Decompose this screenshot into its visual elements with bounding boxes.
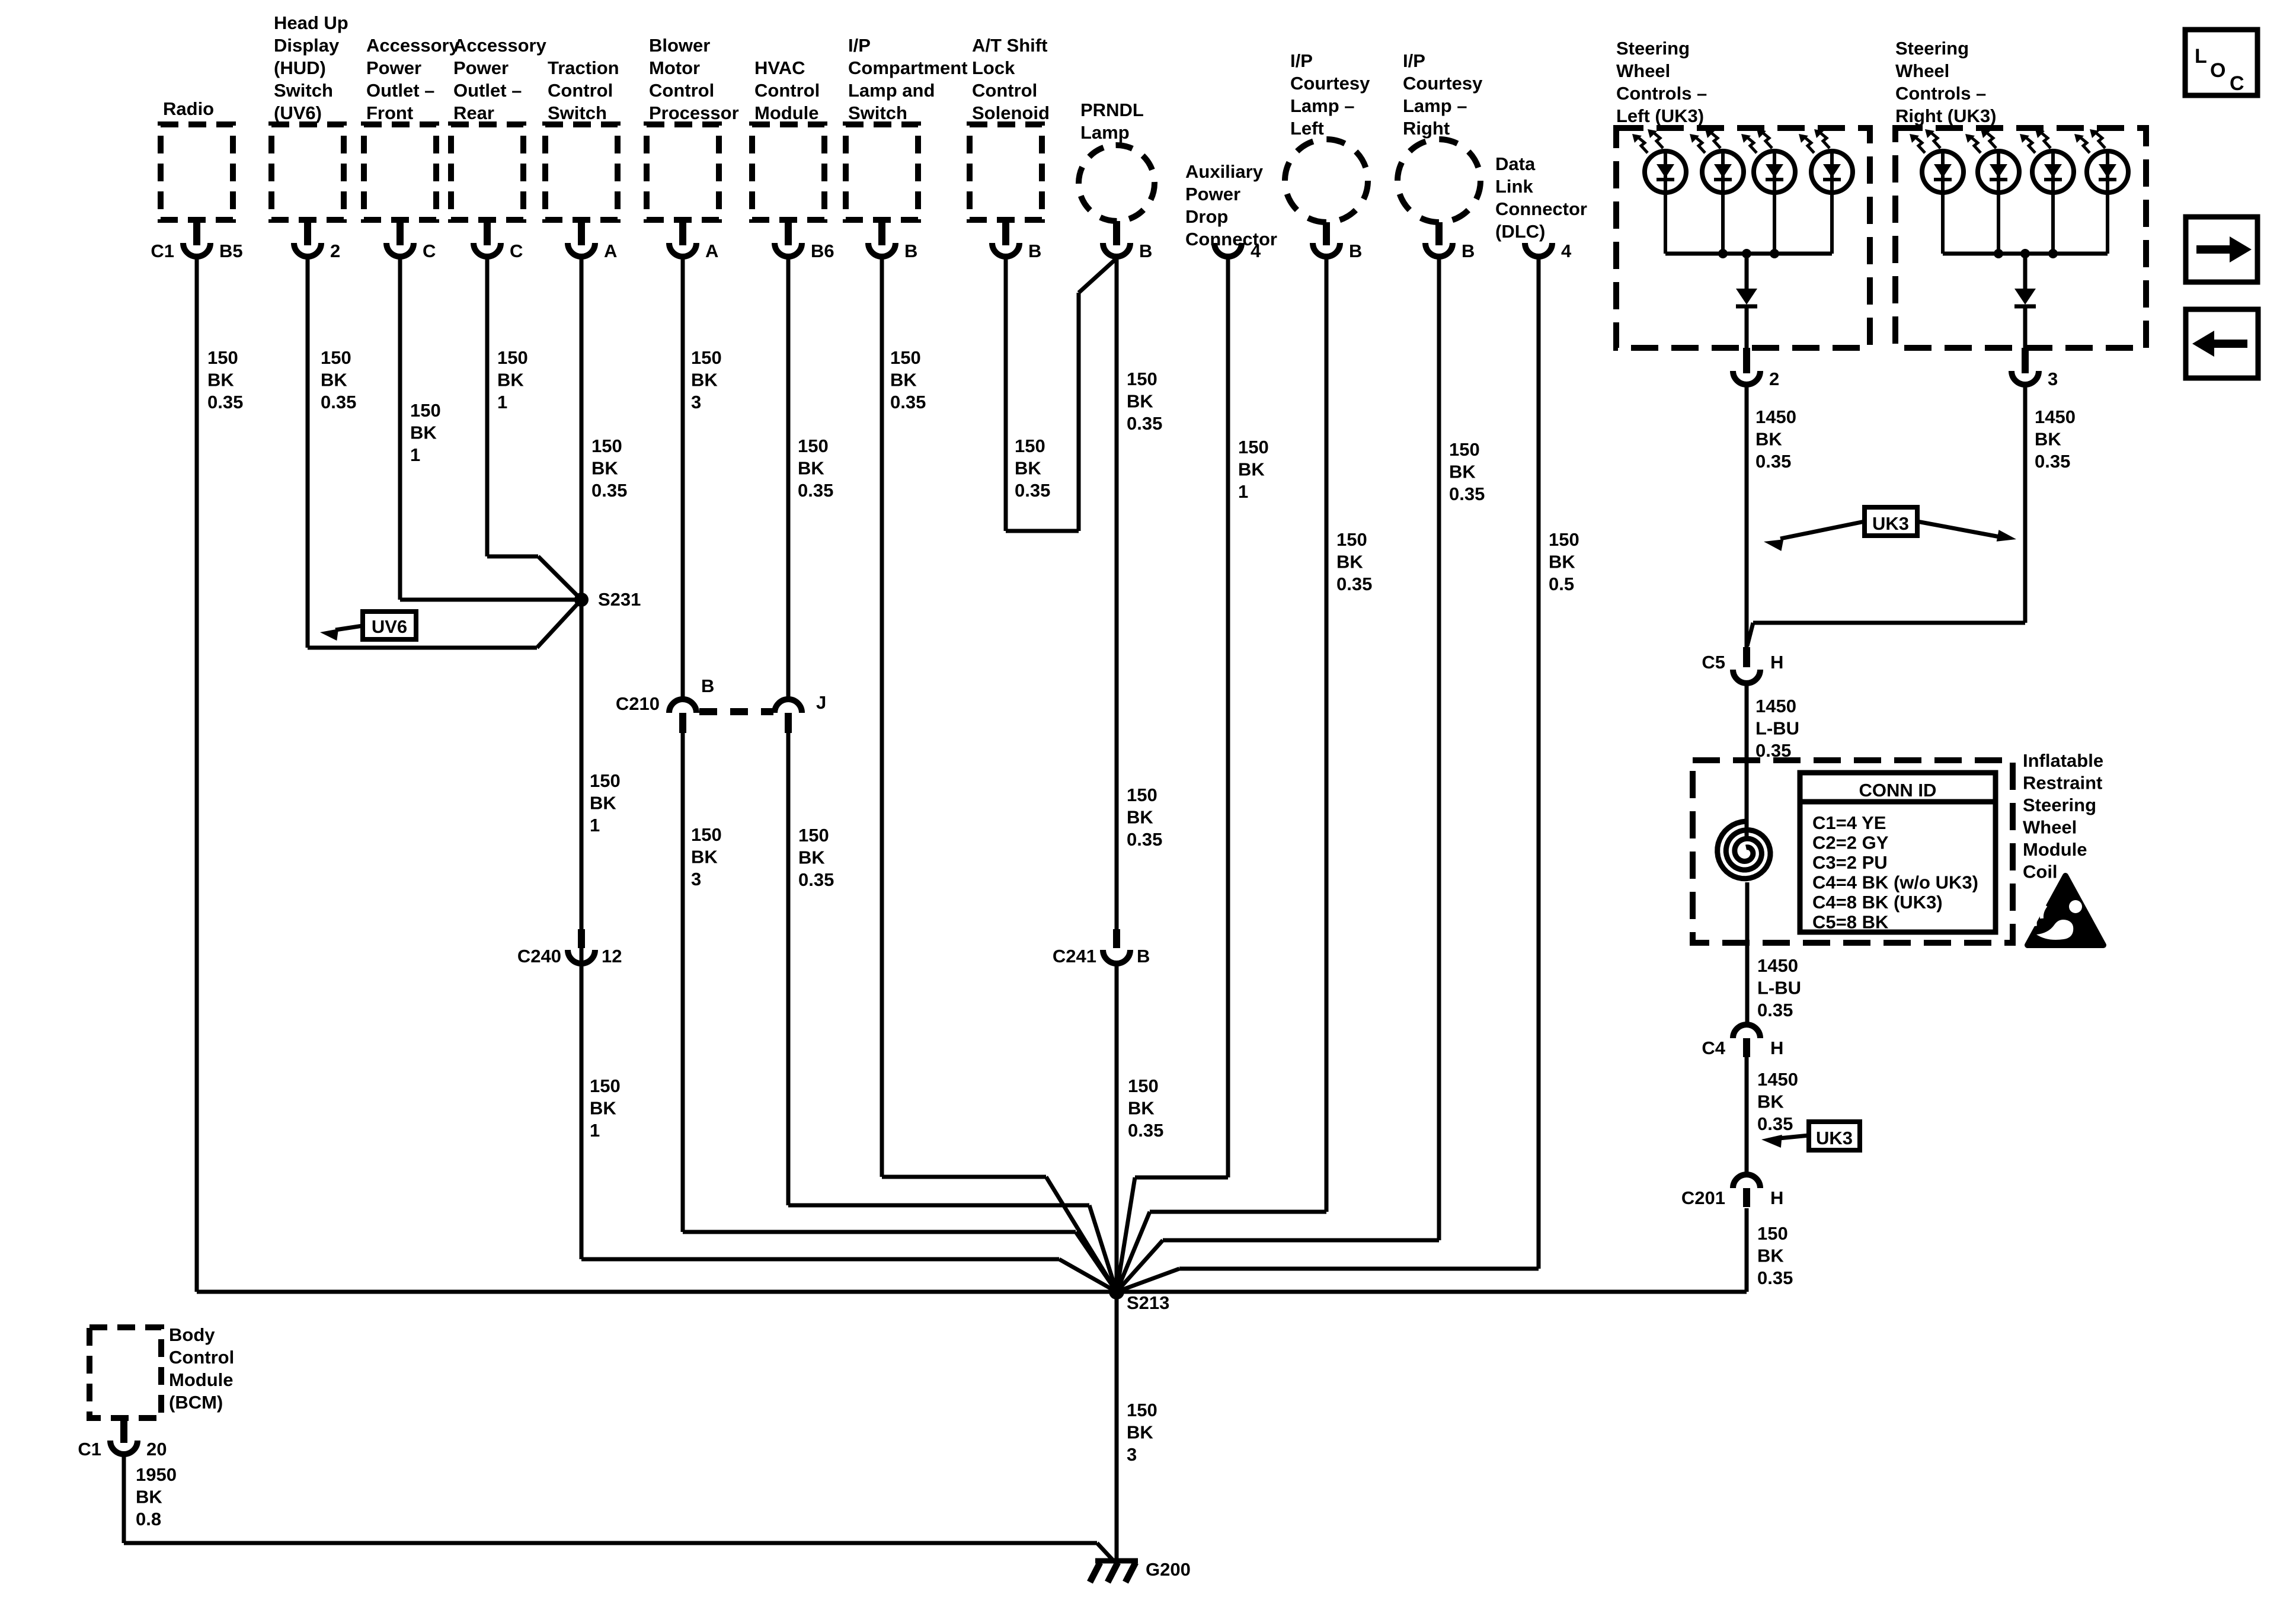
svg-text:1: 1 [590, 1120, 600, 1141]
svg-text:BK: BK [1127, 807, 1153, 828]
svg-text:0.35: 0.35 [591, 480, 627, 501]
svg-text:BK: BK [590, 1098, 616, 1119]
svg-text:Blower: Blower [649, 35, 710, 56]
svg-text:150: 150 [1015, 436, 1045, 456]
svg-text:Courtesy: Courtesy [1290, 73, 1370, 94]
svg-text:1450: 1450 [1757, 1069, 1798, 1090]
svg-text:0.35: 0.35 [1755, 740, 1791, 761]
svg-text:Left: Left [1290, 118, 1324, 139]
svg-text:3: 3 [2048, 369, 2058, 389]
svg-text:Controls –: Controls – [1895, 83, 1986, 104]
svg-text:C210: C210 [616, 693, 660, 714]
svg-text:C240: C240 [517, 946, 561, 966]
svg-text:Auxiliary: Auxiliary [1185, 161, 1264, 182]
svg-text:Body: Body [169, 1324, 215, 1345]
svg-text:L-BU: L-BU [1755, 718, 1799, 739]
svg-text:I/P: I/P [1290, 50, 1313, 71]
svg-text:BK: BK [590, 793, 616, 814]
svg-text:Accessory: Accessory [453, 35, 547, 56]
svg-text:C: C [510, 241, 523, 261]
svg-text:B: B [1349, 241, 1362, 261]
svg-text:C: C [423, 241, 436, 261]
svg-text:Power: Power [453, 57, 509, 78]
svg-text:150: 150 [590, 770, 621, 791]
svg-text:12: 12 [602, 946, 622, 966]
svg-text:C4=8 BK (UK3): C4=8 BK (UK3) [1812, 892, 1943, 913]
svg-text:BK: BK [1128, 1098, 1155, 1119]
svg-text:BK: BK [497, 370, 524, 391]
svg-text:BK: BK [591, 458, 618, 479]
svg-text:O: O [2210, 59, 2225, 82]
svg-text:1: 1 [590, 815, 600, 836]
svg-text:B: B [1462, 241, 1475, 261]
svg-text:I/P: I/P [1403, 50, 1425, 71]
svg-text:Control: Control [169, 1347, 234, 1368]
svg-text:Display: Display [274, 35, 340, 56]
svg-text:BK: BK [2035, 429, 2061, 450]
svg-text:BK: BK [890, 370, 917, 391]
svg-text:Left (UK3): Left (UK3) [1616, 105, 1704, 126]
svg-text:H: H [1770, 1188, 1783, 1208]
svg-text:150: 150 [1238, 437, 1269, 457]
svg-text:Courtesy: Courtesy [1403, 73, 1483, 94]
svg-text:150: 150 [1127, 369, 1157, 389]
svg-text:C5: C5 [1702, 652, 1725, 673]
svg-text:20: 20 [146, 1439, 167, 1459]
svg-text:L-BU: L-BU [1757, 978, 1801, 998]
svg-text:A/T Shift: A/T Shift [972, 35, 1047, 56]
svg-text:Switch: Switch [548, 103, 607, 123]
svg-text:Right: Right [1403, 118, 1450, 139]
svg-text:0.35: 0.35 [207, 392, 243, 412]
svg-text:0.35: 0.35 [1127, 829, 1162, 850]
svg-text:Right (UK3): Right (UK3) [1895, 105, 1996, 126]
svg-text:Steering: Steering [1616, 38, 1690, 59]
svg-text:Motor: Motor [649, 57, 700, 78]
svg-text:Wheel: Wheel [1616, 60, 1670, 81]
svg-text:C241: C241 [1053, 946, 1096, 966]
svg-text:BK: BK [1755, 429, 1782, 450]
svg-text:Connector: Connector [1185, 229, 1277, 249]
svg-text:Wheel: Wheel [1895, 60, 1949, 81]
svg-text:0.5: 0.5 [1549, 574, 1574, 594]
svg-text:0.35: 0.35 [1757, 1113, 1793, 1134]
svg-text:C1: C1 [151, 241, 174, 261]
svg-text:(DLC): (DLC) [1495, 221, 1545, 242]
svg-text:Accessory: Accessory [366, 35, 460, 56]
svg-text:J: J [816, 692, 826, 713]
svg-text:H: H [1770, 652, 1783, 673]
svg-text:150: 150 [207, 347, 238, 368]
svg-text:B5: B5 [219, 241, 243, 261]
svg-text:0.35: 0.35 [1015, 480, 1050, 501]
svg-text:Wheel: Wheel [2023, 817, 2077, 838]
svg-text:150: 150 [1336, 529, 1367, 550]
svg-text:Controls –: Controls – [1616, 83, 1707, 104]
svg-text:1450: 1450 [2035, 406, 2076, 427]
svg-text:PRNDL: PRNDL [1080, 100, 1144, 120]
svg-text:150: 150 [1757, 1223, 1788, 1244]
svg-text:0.35: 0.35 [890, 392, 926, 412]
svg-text:150: 150 [691, 824, 722, 845]
svg-text:B: B [904, 241, 917, 261]
svg-text:BK: BK [1336, 552, 1363, 572]
svg-text:BK: BK [798, 847, 825, 868]
svg-text:BK: BK [691, 847, 718, 868]
svg-text:BK: BK [1757, 1092, 1784, 1112]
svg-text:0.35: 0.35 [1128, 1120, 1163, 1141]
svg-text:1: 1 [497, 392, 507, 412]
svg-text:Solenoid: Solenoid [972, 103, 1050, 123]
svg-text:(BCM): (BCM) [169, 1392, 223, 1413]
svg-text:BK: BK [1127, 1422, 1153, 1443]
svg-text:BK: BK [410, 422, 437, 443]
svg-text:B: B [1028, 241, 1041, 261]
svg-text:BK: BK [1127, 391, 1153, 412]
svg-text:Outlet –: Outlet – [366, 80, 434, 101]
svg-text:150: 150 [591, 436, 622, 456]
svg-text:1450: 1450 [1755, 696, 1796, 716]
svg-text:UK3: UK3 [1872, 513, 1909, 534]
svg-text:Lamp: Lamp [1080, 122, 1130, 143]
svg-text:S231: S231 [598, 589, 641, 610]
svg-text:Radio: Radio [163, 98, 214, 119]
svg-text:150: 150 [798, 436, 829, 456]
svg-text:0.35: 0.35 [1336, 574, 1372, 594]
svg-text:Traction: Traction [548, 57, 619, 78]
svg-text:Control: Control [548, 80, 613, 101]
svg-text:G200: G200 [1146, 1559, 1191, 1580]
svg-text:Lamp –: Lamp – [1290, 95, 1355, 116]
svg-text:150: 150 [1128, 1076, 1159, 1096]
svg-text:150: 150 [321, 347, 351, 368]
svg-text:150: 150 [1549, 529, 1579, 550]
svg-text:C1=4 YE: C1=4 YE [1812, 812, 1886, 833]
svg-text:3: 3 [691, 869, 701, 889]
svg-text:B: B [701, 676, 714, 696]
svg-text:0.35: 0.35 [1449, 484, 1485, 504]
svg-text:Lock: Lock [972, 57, 1015, 78]
svg-text:0.35: 0.35 [1127, 413, 1162, 434]
svg-text:Front: Front [366, 103, 413, 123]
svg-text:Module: Module [169, 1369, 234, 1390]
svg-text:1450: 1450 [1757, 955, 1798, 976]
svg-text:Control: Control [972, 80, 1037, 101]
svg-text:150: 150 [410, 400, 441, 421]
svg-text:S213: S213 [1127, 1292, 1169, 1313]
svg-text:I/P: I/P [848, 35, 871, 56]
svg-text:C4=4 BK (w/o UK3): C4=4 BK (w/o UK3) [1812, 872, 1978, 893]
svg-text:0.35: 0.35 [1757, 1267, 1793, 1288]
svg-text:150: 150 [798, 825, 829, 846]
svg-text:Lamp and: Lamp and [848, 80, 935, 101]
svg-text:Module: Module [2023, 839, 2087, 860]
svg-text:150: 150 [691, 347, 722, 368]
svg-text:Head Up: Head Up [274, 12, 348, 33]
svg-text:0.35: 0.35 [798, 480, 833, 501]
svg-text:150: 150 [590, 1076, 621, 1096]
svg-text:BK: BK [691, 370, 718, 391]
svg-text:C2=2 GY: C2=2 GY [1812, 833, 1889, 853]
svg-text:2: 2 [330, 241, 340, 261]
svg-text:3: 3 [1127, 1444, 1137, 1465]
svg-text:C3=2 PU: C3=2 PU [1812, 852, 1888, 873]
svg-text:150: 150 [497, 347, 528, 368]
svg-text:4: 4 [1561, 241, 1572, 261]
svg-text:B6: B6 [811, 241, 834, 261]
svg-text:L: L [2195, 45, 2207, 68]
svg-text:0.35: 0.35 [1757, 1000, 1793, 1020]
svg-text:2: 2 [1769, 369, 1779, 389]
svg-text:BK: BK [321, 370, 347, 391]
svg-text:Control: Control [649, 80, 714, 101]
svg-text:Control: Control [754, 80, 820, 101]
svg-text:B: B [1137, 946, 1150, 966]
svg-text:Module: Module [754, 103, 819, 123]
svg-text:Connector: Connector [1495, 199, 1587, 219]
svg-text:B: B [1139, 241, 1152, 261]
svg-text:1: 1 [410, 444, 420, 465]
svg-text:BK: BK [207, 370, 234, 391]
svg-text:UK3: UK3 [1816, 1128, 1853, 1148]
svg-text:3: 3 [691, 392, 701, 412]
svg-text:A: A [604, 241, 617, 261]
svg-text:Lamp –: Lamp – [1403, 95, 1467, 116]
svg-text:0.35: 0.35 [321, 392, 356, 412]
svg-text:Restraint: Restraint [2023, 773, 2102, 793]
svg-text:C5=8 BK: C5=8 BK [1812, 912, 1889, 933]
svg-text:C201: C201 [1681, 1188, 1725, 1208]
svg-text:Switch: Switch [274, 80, 333, 101]
svg-text:CONN ID: CONN ID [1859, 780, 1937, 801]
svg-text:A: A [705, 241, 718, 261]
svg-text:0.8: 0.8 [136, 1509, 161, 1529]
svg-text:150: 150 [1449, 439, 1480, 460]
svg-text:C4: C4 [1702, 1038, 1725, 1058]
svg-text:Rear: Rear [453, 103, 494, 123]
svg-text:150: 150 [890, 347, 921, 368]
svg-text:4: 4 [1251, 241, 1261, 261]
svg-text:Power: Power [1185, 184, 1240, 204]
svg-text:BK: BK [136, 1487, 162, 1507]
svg-text:150: 150 [1127, 785, 1157, 805]
svg-text:Coil: Coil [2023, 862, 2058, 882]
svg-text:Drop: Drop [1185, 206, 1228, 227]
svg-text:0.35: 0.35 [1755, 451, 1791, 472]
svg-text:(UV6): (UV6) [274, 103, 322, 123]
svg-text:Inflatable: Inflatable [2023, 750, 2103, 771]
svg-text:Power: Power [366, 57, 421, 78]
svg-text:H: H [1770, 1038, 1783, 1058]
svg-text:150: 150 [1127, 1400, 1157, 1420]
svg-text:BK: BK [1449, 462, 1476, 482]
svg-text:BK: BK [1015, 458, 1041, 479]
svg-text:Processor: Processor [649, 103, 739, 123]
svg-text:Switch: Switch [848, 103, 907, 123]
svg-text:Link: Link [1495, 176, 1533, 197]
svg-text:Steering: Steering [2023, 795, 2096, 815]
svg-text:Steering: Steering [1895, 38, 1969, 59]
svg-text:1950: 1950 [136, 1464, 177, 1485]
svg-text:1450: 1450 [1755, 406, 1796, 427]
svg-text:BK: BK [798, 458, 824, 479]
svg-text:0.35: 0.35 [2035, 451, 2070, 472]
svg-text:C: C [2230, 72, 2244, 95]
svg-text:Outlet –: Outlet – [453, 80, 522, 101]
svg-text:BK: BK [1238, 459, 1265, 480]
svg-text:UV6: UV6 [372, 616, 407, 637]
svg-text:(HUD): (HUD) [274, 57, 326, 78]
svg-text:C1: C1 [78, 1439, 101, 1459]
svg-text:Compartment: Compartment [848, 57, 968, 78]
svg-text:Data: Data [1495, 153, 1536, 174]
svg-text:1: 1 [1238, 481, 1248, 502]
svg-text:BK: BK [1757, 1246, 1784, 1266]
svg-text:0.35: 0.35 [798, 869, 834, 890]
svg-text:HVAC: HVAC [754, 57, 805, 78]
svg-text:BK: BK [1549, 552, 1575, 572]
